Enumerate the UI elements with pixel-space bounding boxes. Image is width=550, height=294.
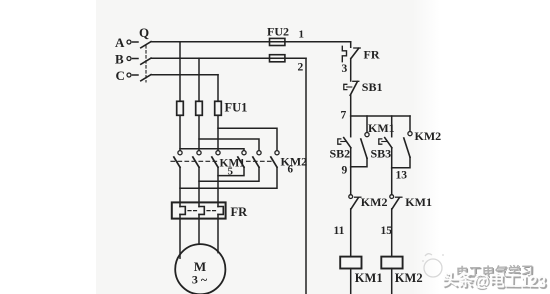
wire phase A horizontal xyxy=(151,41,351,43)
svg-text:3: 3 xyxy=(342,63,348,75)
contactor KM2 main pole2 xyxy=(253,151,261,168)
contact KM2 aux NO (self hold) xyxy=(392,116,412,168)
wire FR outputs to motor xyxy=(179,214,181,258)
FR NC contact (thermal trip) xyxy=(342,46,360,61)
svg-text:A: A xyxy=(115,35,125,50)
node A xyxy=(127,40,138,44)
contactor KM2 main pole3 xyxy=(271,151,279,168)
svg-text:KM1: KM1 xyxy=(368,121,395,135)
svg-text:SB3: SB3 xyxy=(371,147,392,161)
svg-text:C: C xyxy=(116,68,125,83)
svg-text:FU2: FU2 xyxy=(267,25,289,39)
fuse FU2 (upper) xyxy=(270,38,285,45)
contact KM1 NC interlock xyxy=(390,195,402,209)
FR heater element 2 xyxy=(199,207,204,215)
wire branch B to KM2 pole2 xyxy=(199,139,259,150)
wire coil KM2 bottom xyxy=(391,269,393,294)
svg-text:3 ~: 3 ~ xyxy=(192,273,208,287)
wire node 3 xyxy=(350,59,352,82)
wire bus node 7 xyxy=(351,115,410,117)
svg-text:KM2: KM2 xyxy=(361,195,388,209)
fuse FU2 (lower) xyxy=(270,55,285,62)
wire drop phase A xyxy=(179,42,181,102)
coil KM2 xyxy=(381,257,402,269)
wire phase C horizontal xyxy=(151,74,218,76)
contact KM1 aux NO (self hold) xyxy=(351,116,369,167)
wire KM2 pole2 cross to B xyxy=(199,167,259,181)
fuse FU1 a xyxy=(177,101,184,115)
wire 2 (control return rail) xyxy=(285,58,306,294)
svg-text:Q: Q xyxy=(139,25,149,40)
fuse FU1 c xyxy=(215,101,222,115)
wire drop phase B xyxy=(198,58,200,101)
svg-text:1: 1 xyxy=(299,29,305,41)
svg-text:11: 11 xyxy=(334,225,345,237)
svg-text:KM2: KM2 xyxy=(415,129,442,143)
node C xyxy=(127,73,138,77)
svg-text:KM2: KM2 xyxy=(395,271,423,285)
thermal relay FR box xyxy=(172,202,226,218)
contactor KM2 main pole1 xyxy=(238,151,246,168)
watermark line 1 xyxy=(456,260,534,280)
wire node 15 down to coil xyxy=(391,209,393,257)
coil KM1 xyxy=(340,257,361,269)
wire node 11 down to coil xyxy=(350,209,352,257)
switch Q link (dashed) xyxy=(145,46,147,83)
svg-text:5: 5 xyxy=(228,166,234,178)
svg-text:KM1: KM1 xyxy=(405,195,432,209)
wire coil KM1 bottom xyxy=(350,269,352,294)
pushbutton SB1 (NC stop) xyxy=(344,81,359,95)
svg-text:2: 2 xyxy=(298,62,304,74)
contactor KM1 main pole3 xyxy=(212,151,220,168)
svg-text:KM1: KM1 xyxy=(355,271,383,285)
wire KM1 pole outputs down xyxy=(179,167,181,206)
contact KM2 NC interlock xyxy=(349,195,361,209)
wire 1 (control feed) xyxy=(285,42,351,48)
svg-text:13: 13 xyxy=(396,170,408,182)
svg-text:6: 6 xyxy=(288,164,294,176)
svg-text:7: 7 xyxy=(341,110,347,122)
svg-text:9: 9 xyxy=(342,165,348,177)
wire drop phase C xyxy=(217,75,219,102)
FR heater element 3 xyxy=(218,207,223,215)
wire KM2 pole3 cross to A xyxy=(180,167,277,188)
pushbutton SB2 (NO forward) xyxy=(338,116,351,167)
svg-text:FR: FR xyxy=(364,48,380,62)
main contacts mechanical link (dashed) xyxy=(171,160,217,162)
wire fuse outputs down to contacts xyxy=(179,115,181,150)
contactor KM1 main pole1 xyxy=(174,151,182,168)
svg-text:SB2: SB2 xyxy=(330,147,351,161)
wire branch C to KM2 pole3 xyxy=(218,128,277,150)
FR heater element 1 xyxy=(180,207,185,215)
wire node 13 down xyxy=(391,168,393,194)
wire phase B horizontal xyxy=(151,57,306,59)
wire node 9 down xyxy=(350,167,352,194)
contactor KM1 main pole2 xyxy=(193,151,201,168)
svg-text:B: B xyxy=(115,52,124,67)
wire branch A to KM2 pole1 xyxy=(180,149,244,151)
pushbutton SB3 (NO reverse) xyxy=(379,116,392,168)
watermark logo xyxy=(422,254,444,277)
svg-text:15: 15 xyxy=(381,225,393,237)
wire KM2 pole1 cross to C xyxy=(218,167,244,175)
FR element links (dashed) xyxy=(188,210,197,212)
watermark line 2 xyxy=(442,266,546,292)
node B xyxy=(127,57,138,61)
svg-text:FU1: FU1 xyxy=(225,101,248,115)
svg-text:FR: FR xyxy=(231,205,249,219)
svg-text:KM2: KM2 xyxy=(281,155,308,169)
wire node 7 xyxy=(350,95,352,116)
switch Q blades xyxy=(141,42,151,81)
fuse FU1 b xyxy=(196,101,203,115)
motor M xyxy=(175,244,225,294)
svg-text:SB1: SB1 xyxy=(362,80,383,94)
